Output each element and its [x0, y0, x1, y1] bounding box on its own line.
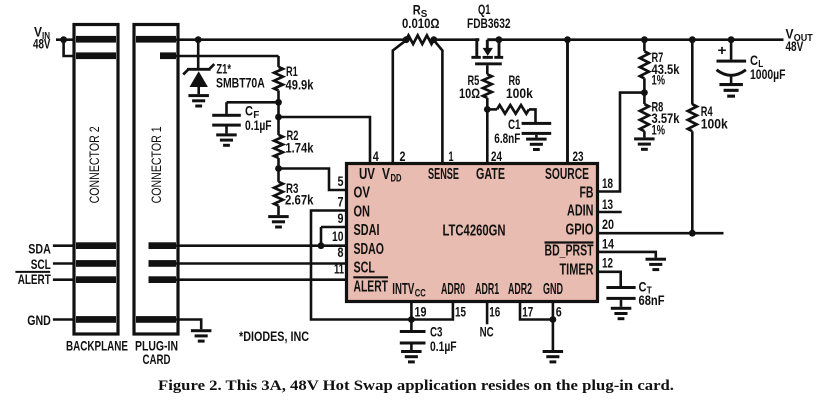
svg-text:1%: 1% [652, 71, 666, 87]
svg-text:100k: 100k [506, 85, 533, 101]
svg-text:11: 11 [334, 261, 344, 277]
svg-text:Figure 2. This 3A, 48V Hot Swa: Figure 2. This 3A, 48V Hot Swap applicat… [158, 378, 674, 394]
svg-text:6.8nF: 6.8nF [494, 130, 520, 146]
svg-text:1: 1 [449, 148, 454, 164]
svg-text:10Ω: 10Ω [459, 85, 480, 101]
svg-text:14: 14 [602, 235, 614, 251]
svg-text:23: 23 [573, 148, 584, 164]
svg-text:12: 12 [602, 254, 613, 270]
svg-text:9: 9 [338, 210, 344, 226]
svg-text:NC: NC [480, 324, 494, 340]
svg-text:4: 4 [373, 148, 379, 164]
svg-text:48V: 48V [33, 36, 51, 52]
svg-text:GND: GND [543, 281, 563, 298]
svg-text:18: 18 [602, 175, 613, 191]
svg-text:100k: 100k [701, 115, 728, 131]
svg-text:10: 10 [332, 228, 344, 244]
svg-text:CONNECTOR 1: CONNECTOR 1 [149, 126, 164, 203]
svg-text:BACKPLANE: BACKPLANE [66, 338, 128, 354]
svg-text:DD: DD [391, 172, 402, 184]
svg-text:8: 8 [338, 244, 344, 260]
svg-text:+: + [718, 43, 727, 58]
svg-text:CC: CC [415, 287, 426, 299]
svg-text:7: 7 [338, 194, 344, 210]
svg-text:FDB3632: FDB3632 [467, 15, 511, 31]
svg-text:SOURCE: SOURCE [545, 166, 589, 183]
svg-text:TIMER: TIMER [560, 261, 594, 278]
svg-text:0.010Ω: 0.010Ω [402, 15, 440, 31]
svg-text:68nF: 68nF [639, 292, 665, 308]
svg-text:FB: FB [580, 184, 594, 201]
svg-text:ADIN: ADIN [567, 203, 594, 220]
svg-text:CONNECTOR 2: CONNECTOR 2 [87, 126, 102, 203]
svg-text:SDA: SDA [28, 240, 51, 256]
svg-text:24: 24 [491, 148, 502, 164]
svg-text:GND: GND [27, 312, 51, 328]
svg-text:17: 17 [522, 304, 533, 320]
svg-text:6: 6 [556, 304, 562, 320]
svg-text:20: 20 [602, 216, 614, 232]
svg-text:GATE: GATE [476, 166, 505, 183]
svg-text:15: 15 [455, 304, 466, 320]
svg-text:BD_PRST: BD_PRST [545, 242, 594, 259]
svg-text:13: 13 [602, 196, 613, 212]
svg-text:ALERT: ALERT [18, 271, 51, 287]
svg-text:1%: 1% [652, 121, 666, 137]
svg-text:SDAI: SDAI [354, 222, 380, 239]
svg-text:2.67k: 2.67k [285, 192, 314, 208]
svg-text:1.74k: 1.74k [285, 140, 313, 156]
svg-text:V: V [382, 166, 391, 183]
svg-text:CARD: CARD [143, 351, 171, 367]
svg-text:48V: 48V [786, 38, 804, 54]
svg-text:0.1µF: 0.1µF [245, 117, 272, 133]
svg-text:2: 2 [400, 148, 406, 164]
svg-text:UV: UV [359, 166, 375, 183]
svg-text:LTC4260GN: LTC4260GN [443, 223, 506, 240]
svg-text:0.1µF: 0.1µF [430, 338, 457, 354]
svg-text:19: 19 [415, 304, 427, 320]
svg-text:SCL: SCL [31, 256, 51, 272]
svg-text:ADR2: ADR2 [508, 281, 532, 298]
svg-text:5: 5 [338, 173, 344, 189]
svg-text:OV: OV [354, 185, 371, 202]
svg-text:ON: ON [354, 203, 371, 220]
svg-text:1000µF: 1000µF [750, 66, 786, 82]
svg-text:SCL: SCL [354, 260, 376, 277]
svg-text:ALERT: ALERT [354, 278, 389, 295]
svg-text:SENSE: SENSE [428, 166, 459, 183]
svg-text:ADR0: ADR0 [441, 281, 465, 298]
svg-text:C: C [245, 103, 253, 119]
svg-text:SMBT70A: SMBT70A [216, 74, 265, 90]
svg-text:SDAO: SDAO [354, 241, 385, 258]
svg-text:16: 16 [489, 304, 500, 320]
svg-text:49.9k: 49.9k [286, 77, 314, 93]
svg-text:*DIODES, INC: *DIODES, INC [239, 328, 309, 344]
svg-text:INTV: INTV [392, 281, 414, 298]
svg-text:ADR1: ADR1 [475, 281, 499, 298]
svg-text:GPIO: GPIO [566, 222, 594, 239]
